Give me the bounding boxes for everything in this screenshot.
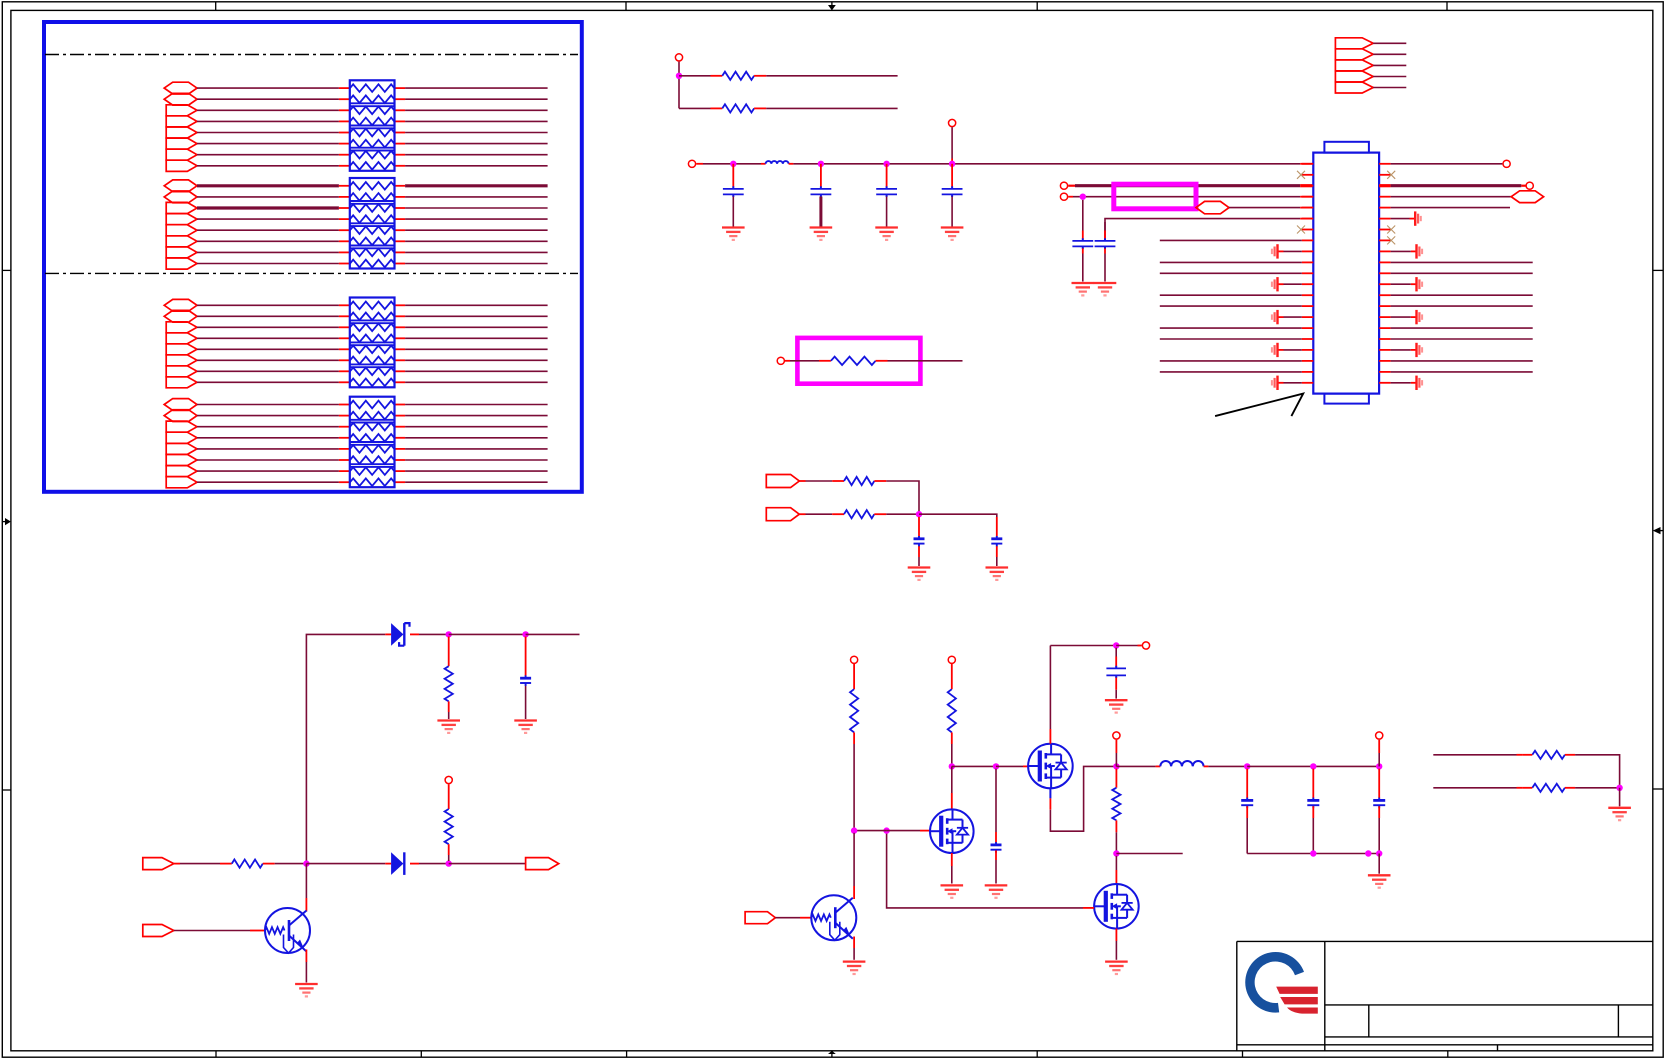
no-connect X left pin2 xyxy=(1297,171,1305,179)
wire right row5 stub xyxy=(1391,218,1410,220)
port arrow net row4 (hexagon) xyxy=(1196,201,1229,213)
wire C12 upper xyxy=(1246,769,1248,799)
resistor R13 xyxy=(1532,784,1565,792)
wire C13 lower xyxy=(1312,806,1314,818)
wire right row3 xyxy=(1391,196,1512,198)
mosfet M1 xyxy=(1028,744,1073,789)
wire cap C4 upper xyxy=(951,164,953,187)
wire T11 drop xyxy=(1115,740,1117,753)
wire harness left long lines xyxy=(1160,239,1302,241)
wire C10 lower xyxy=(995,850,997,860)
wire R7 to node xyxy=(263,863,275,865)
wire row B right xyxy=(754,107,766,109)
wire Q1 collector xyxy=(305,864,307,898)
port arrow IN3 (flag) xyxy=(143,858,174,870)
wire cap C5 lower xyxy=(1082,248,1084,253)
port arrows top-right stack xyxy=(1335,38,1373,49)
port arrow IN4 (flag) xyxy=(143,925,174,937)
capacitor C4 xyxy=(942,188,963,190)
capacitor C7 xyxy=(914,537,925,540)
wire cap C2 upper xyxy=(820,164,822,187)
port arrow IN5 (flag) xyxy=(745,912,775,924)
junction dot L xyxy=(1244,763,1250,769)
capacitor C8 xyxy=(991,537,1002,540)
resistor pack RN3 xyxy=(350,298,395,388)
terminal right row0 (circle) xyxy=(1503,160,1510,167)
terminal T9 (circle) xyxy=(948,656,955,663)
wire R3 right xyxy=(876,360,888,362)
wire sense upper xyxy=(1433,754,1516,756)
wire cap C2 lower xyxy=(819,197,822,227)
ground C7 xyxy=(908,566,931,568)
wire rail segment 1 xyxy=(696,163,703,165)
no-connect X left pin7 xyxy=(1297,226,1305,234)
wire Q2 emitter xyxy=(853,937,855,949)
capacitor C14 xyxy=(1373,799,1385,802)
port arrow OUT1 (flag) xyxy=(526,858,559,870)
wire M2 gate link xyxy=(887,831,1083,908)
wire row B left xyxy=(679,107,711,109)
wire row5 corner xyxy=(1105,219,1300,240)
wire to L2 xyxy=(1116,765,1155,767)
diode D1 (zener) xyxy=(391,623,403,646)
junction dot Q xyxy=(1376,850,1382,856)
wire thick bus row2 xyxy=(1068,185,1075,187)
port arrows group 2 (input stack) xyxy=(166,202,197,213)
ground Q1 xyxy=(295,983,318,985)
wire node feedback xyxy=(1116,853,1182,855)
wire bus group 3 right segments xyxy=(405,304,547,306)
port arrows group 2 (bidirectional pair) xyxy=(164,180,197,192)
wire cap C1 lower xyxy=(732,197,734,227)
wire M2 gate wire xyxy=(887,830,920,832)
no-connect X right pin2 xyxy=(1387,171,1395,179)
wire bus group 3 left segments xyxy=(197,304,339,306)
wire node to OUT1 xyxy=(449,863,526,865)
resistor pack RN4 pin stubs xyxy=(339,404,350,406)
ground C8 xyxy=(986,566,1009,568)
inductor L2 xyxy=(1160,761,1203,766)
wire gate rail M1 xyxy=(952,765,996,767)
wire bus group 4 left segments xyxy=(197,404,339,406)
wire R9 upper xyxy=(853,664,855,689)
connector J1 left pin stubs xyxy=(1302,163,1314,165)
junction dot B xyxy=(1080,194,1086,200)
title block grid xyxy=(1237,940,1653,942)
ground C10 xyxy=(985,884,1008,886)
resistor R1 xyxy=(722,72,754,80)
junction dot rail 1 xyxy=(730,161,736,167)
wire cap C4 lower xyxy=(951,197,953,227)
wire C8 lower xyxy=(996,546,998,557)
wire bus group 2 right segments xyxy=(405,184,547,187)
wire R6 lower xyxy=(448,701,450,712)
wire C7 upper xyxy=(918,517,920,537)
wire D2 to node xyxy=(410,863,419,865)
wire row3 xyxy=(1068,196,1073,198)
junction dot K xyxy=(1113,763,1119,769)
wire IN1 xyxy=(799,480,805,482)
resistor R2 xyxy=(722,104,754,112)
annotation arrow to connector xyxy=(1215,394,1303,417)
wire row A left xyxy=(679,75,711,77)
capacitor C3 xyxy=(876,188,897,190)
terminal T5 (circle) xyxy=(1060,193,1067,200)
wire row4 xyxy=(1229,207,1300,209)
wire right row4 xyxy=(1391,207,1510,209)
portal termination right row5 xyxy=(1414,211,1416,225)
resistor R11 xyxy=(1112,788,1120,821)
wire cap C6 upper xyxy=(1104,222,1106,231)
wire cap C3 upper xyxy=(886,164,888,187)
no-connect X right pin8 xyxy=(1387,236,1395,244)
connector J1 body xyxy=(1313,153,1379,394)
wire cap C3 lower xyxy=(886,197,888,227)
wire right thick row2 xyxy=(1379,184,1391,187)
wire row A right xyxy=(754,75,766,77)
top border center arrow xyxy=(831,2,833,6)
wire C10 upper xyxy=(995,769,997,832)
terminal right row2 (circle) xyxy=(1526,182,1533,189)
wire cap C5 upper xyxy=(1082,200,1084,231)
junction dot I xyxy=(993,763,999,769)
terminal T11 (circle) xyxy=(1113,732,1120,739)
resistor R10 xyxy=(948,689,956,732)
dash-dot separator line upper xyxy=(45,54,578,56)
capacitor C2 xyxy=(811,188,832,190)
terminal T7 (circle) xyxy=(445,776,452,783)
wire top rail to T10 xyxy=(1050,645,1116,647)
resistor R5 xyxy=(844,510,874,518)
wire C12 lower xyxy=(1246,806,1248,818)
wire C11 lower xyxy=(1115,678,1117,690)
wire C9 upper xyxy=(525,637,527,677)
junction dot R xyxy=(1113,850,1119,856)
wire M3 drain xyxy=(1115,856,1117,870)
capacitor C1 xyxy=(723,188,744,190)
wire IN3 xyxy=(174,863,180,865)
wire node to C8 xyxy=(919,514,997,517)
wire M1 drain top xyxy=(1049,646,1051,730)
wire M1 source path xyxy=(1049,788,1051,798)
wire gate rail M1 b xyxy=(996,765,1023,767)
ground M3 xyxy=(1105,960,1128,962)
bottom border center arrow xyxy=(831,1054,833,1057)
junction dot N xyxy=(1376,763,1382,769)
wire cap C6 lower xyxy=(1104,248,1106,253)
wire Q2 collector xyxy=(853,833,855,886)
wire to T10 xyxy=(1116,645,1137,647)
company logo xyxy=(1245,952,1304,1013)
wire T3 drop xyxy=(951,127,953,158)
top border zone ticks xyxy=(215,2,217,11)
capacitor C5 xyxy=(1072,240,1093,242)
wires top-right stack xyxy=(1373,42,1406,44)
junction dot rail 3 xyxy=(883,161,889,167)
wire D1 to node xyxy=(410,633,419,635)
ground R6 xyxy=(437,719,460,721)
resistor pack RN2 xyxy=(350,178,395,269)
ground C9 xyxy=(514,719,537,721)
wire R13 stub left xyxy=(1522,787,1532,789)
wire right row0 xyxy=(1391,163,1503,165)
resistor pack RN4 xyxy=(350,397,395,488)
port arrows group 1 (bidirectional pair) xyxy=(164,82,197,94)
wire rail segment 2 xyxy=(789,163,794,165)
terminal T8 (circle) xyxy=(851,656,858,663)
port arrows group 4 (bidirectional pair) xyxy=(164,399,197,411)
terminal T10 (circle) xyxy=(1142,642,1149,649)
terminal T4 (circle) xyxy=(1060,182,1067,189)
capacitor C11 xyxy=(1106,667,1126,669)
wire R12 stub right xyxy=(1565,754,1575,756)
wire out rail xyxy=(1247,765,1379,767)
wire R11 upper xyxy=(1115,769,1117,788)
mosfet M3 xyxy=(1094,884,1139,929)
wire IN2 xyxy=(799,513,805,515)
wire sense upper right xyxy=(1575,755,1620,788)
resistor R6 xyxy=(445,666,453,701)
port arrows group 3 (input stack) xyxy=(166,322,197,333)
junction dot rail 4 xyxy=(949,161,955,167)
portal terminations right xyxy=(1391,250,1411,252)
wire gnd stem xyxy=(1378,854,1380,874)
junction dot T xyxy=(851,827,857,833)
wire R5 to node xyxy=(874,513,886,515)
resistor pack RN1 xyxy=(350,80,395,171)
wire bus group 1 left segments xyxy=(197,87,339,89)
junction dot P xyxy=(1365,850,1371,856)
wire Q2 base xyxy=(775,917,800,919)
highlight box (magenta) middle xyxy=(797,338,920,384)
junction dot H xyxy=(949,763,955,769)
wire R8 upper xyxy=(448,784,450,809)
wire cap C1 upper xyxy=(732,164,734,187)
resistor R4 xyxy=(844,477,874,485)
ground cap C2 xyxy=(810,226,833,228)
transistor Q1 (digital NPN) xyxy=(265,908,310,953)
ground C11 xyxy=(1105,699,1128,701)
terminal T3 (circle) xyxy=(949,119,956,126)
wire M3 source xyxy=(1115,929,1117,941)
wire bottom rail xyxy=(1247,853,1379,855)
wire C13 upper xyxy=(1312,769,1314,799)
wire top rail xyxy=(306,634,385,863)
port arrow IN1 (flag) xyxy=(766,475,799,488)
ground M2 xyxy=(941,884,964,886)
wire R6 upper xyxy=(448,637,450,667)
ground out rail xyxy=(1368,874,1391,876)
highlight box (magenta) upper xyxy=(1114,184,1196,209)
junction dot U xyxy=(1616,785,1622,791)
ground cap C1 xyxy=(722,226,745,228)
port arrow IN2 (flag) xyxy=(766,508,799,521)
transistor Q2 (digital NPN) xyxy=(811,895,856,940)
wire R8 lower xyxy=(448,844,450,855)
terminal T12 (circle) xyxy=(1376,732,1383,739)
junction dot A xyxy=(676,73,682,79)
ground cap C4 xyxy=(941,226,964,228)
junction dot E xyxy=(522,631,528,637)
junction dot G xyxy=(446,860,452,866)
dash-dot separator line middle xyxy=(45,272,578,274)
right border center arrow xyxy=(1660,530,1664,532)
junction dot C xyxy=(916,511,922,517)
resistor pack RN2 pin stubs xyxy=(339,185,350,187)
port arrow right row3 (hexagon) xyxy=(1511,191,1543,203)
wire rail right end xyxy=(526,633,580,635)
ground cap C6 xyxy=(1094,282,1117,284)
resistor R3 xyxy=(831,357,876,365)
wire node to C9 branch xyxy=(449,633,526,635)
wire sense lower right xyxy=(1575,787,1620,789)
wire Q1 emitter xyxy=(305,950,307,963)
wire sense gnd stem xyxy=(1619,788,1621,807)
capacitor C6 xyxy=(1095,240,1116,242)
connector J1 bottom notch xyxy=(1324,394,1369,404)
wire node to D2 xyxy=(306,863,385,865)
capacitor C12 xyxy=(1241,799,1253,802)
wire Q2 collector rail xyxy=(854,830,887,832)
inductor L1 xyxy=(766,161,789,164)
wire Q1 base xyxy=(174,930,250,932)
junction dot F xyxy=(303,860,309,866)
capacitor C9 xyxy=(520,677,531,680)
wire R13 stub right xyxy=(1565,787,1575,789)
capacitor C10 xyxy=(991,844,1002,847)
terminal T6 (circle) xyxy=(777,357,784,364)
ground cap C3 xyxy=(875,226,898,228)
terminal T2 (circle) xyxy=(688,160,695,167)
wire R9 lower xyxy=(853,732,855,744)
resistor-array block outline box xyxy=(44,22,582,492)
wire bus group 2 left segments xyxy=(197,184,339,187)
portal terminations left xyxy=(1279,250,1284,252)
wire harness right long lines xyxy=(1391,261,1533,263)
left border zone ticks xyxy=(2,269,11,271)
bottom border zone ticks xyxy=(215,1051,217,1057)
wire T1 vertical xyxy=(678,62,680,109)
resistor R8 xyxy=(445,809,453,844)
resistor pack RN1 pin stubs xyxy=(339,87,350,89)
wire sense lower xyxy=(1433,787,1516,789)
resistor pack RN3 pin stubs xyxy=(339,304,350,306)
connector J1 top notch xyxy=(1324,142,1369,153)
left border center arrow xyxy=(2,521,6,523)
junction dot M xyxy=(1310,763,1316,769)
wire bus group 4 right segments xyxy=(405,404,547,406)
port arrows group 3 (bidirectional pair) xyxy=(164,299,197,311)
ground Q2 xyxy=(843,960,866,962)
wire R11 lower xyxy=(1115,820,1117,832)
resistor R12 xyxy=(1532,751,1565,759)
port arrows group 4 (input stack) xyxy=(166,421,197,432)
no-connect X right pin7 xyxy=(1387,226,1395,234)
port arrows group 1 (input stack) xyxy=(166,105,197,116)
junction dot D xyxy=(446,631,452,637)
wire C11 upper xyxy=(1115,648,1117,657)
wire L2 to rail xyxy=(1204,765,1209,767)
wire M2 drain xyxy=(951,766,953,793)
wire R10 upper xyxy=(951,664,953,689)
diode D2 xyxy=(391,852,403,875)
ground sense xyxy=(1608,807,1631,809)
wire R4 to node xyxy=(874,480,886,482)
wire R10 lower xyxy=(951,732,953,744)
junction dot S xyxy=(883,827,889,833)
wire R3 left xyxy=(784,360,790,362)
connector J1 right pin stubs xyxy=(1379,163,1391,165)
right border zone ticks xyxy=(1653,269,1663,271)
wire C7 lower xyxy=(918,546,920,557)
capacitor C13 xyxy=(1307,799,1319,802)
junction dot rail 2 xyxy=(818,161,824,167)
resistor R9 xyxy=(850,689,858,732)
wire C14 lower xyxy=(1378,806,1380,818)
mosfet M2 xyxy=(930,809,974,853)
terminal T1 (circle) xyxy=(675,54,682,61)
wire M2 source xyxy=(951,853,953,866)
junction dot J xyxy=(1113,642,1119,648)
wire T12 drop xyxy=(1378,740,1380,753)
wire R12 stub left xyxy=(1522,754,1532,756)
wire C14 upper xyxy=(1378,769,1380,799)
wire bus group 1 right segments xyxy=(405,87,547,89)
ground cap C5 xyxy=(1072,282,1095,284)
resistor R7 xyxy=(232,860,263,868)
junction dot O xyxy=(1310,850,1316,856)
wire C9 lower xyxy=(525,686,527,719)
